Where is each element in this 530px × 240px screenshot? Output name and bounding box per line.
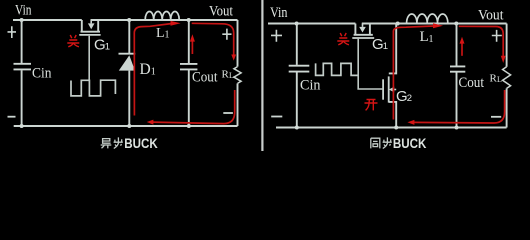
wire Cout lower lead right: [456, 72, 458, 127]
label bu (step) character: [114, 137, 123, 148]
capacitor Cin: [14, 64, 32, 70]
transistor G1 right arrow: [362, 24, 364, 27]
capacitor Cout: [180, 64, 197, 70]
plus output terminal: [222, 29, 231, 40]
red current line below RL curving left along bottom right panel: [414, 90, 505, 123]
red arrowhead pointing left on bottom return: [147, 120, 154, 125]
label tong (sync) character: [371, 138, 380, 148]
transistor G1 right channel bar: [354, 34, 373, 36]
transistor G1 arrow: [90, 20, 92, 23]
svg-text:1: 1: [165, 30, 170, 41]
wire left vertical upper: [21, 20, 23, 63]
inductor L1 right: [407, 14, 448, 23]
inductor L1: [145, 12, 179, 20]
wire top-left horizontal: [13, 19, 82, 21]
wire bottom right panel: [276, 127, 507, 129]
wire right edge lower: [237, 83, 239, 126]
svg-text:1: 1: [105, 42, 110, 53]
transistor G2 gate bar: [382, 79, 384, 99]
wire Cout upper lead: [188, 20, 190, 63]
wire Cin vertical lower right: [296, 72, 298, 127]
node Cout junction top: [187, 18, 191, 22]
label bu (step) character right: [383, 137, 392, 148]
node switch node junction: [396, 22, 400, 26]
transistor G2 arrow: [394, 89, 396, 91]
label off (guan) red character right: [337, 33, 349, 45]
wire top-left horizontal right panel: [268, 23, 355, 25]
node input junction right: [295, 22, 299, 26]
capacitor Cout right: [450, 66, 465, 71]
wire Cout lower lead: [188, 70, 190, 126]
svg-text:2: 2: [407, 93, 412, 104]
minus input terminal right: [271, 116, 282, 118]
wire diode anode lead: [128, 71, 130, 126]
svg-text:L: L: [156, 26, 165, 41]
red current line to corner and down right panel: [459, 26, 503, 56]
wire left vertical lower: [21, 70, 23, 126]
transistor G2 channel bar: [388, 76, 390, 102]
label yi (async) character: [101, 139, 112, 149]
node bottom Cout junction: [187, 124, 191, 128]
svg-text:L: L: [420, 29, 429, 45]
diode D1: [119, 53, 136, 55]
red arrowhead pointing left on bottom return right: [407, 120, 414, 125]
resistor RL right: [503, 67, 511, 89]
transistor G1 channel bar: [81, 31, 101, 33]
node bottom diode junction: [127, 124, 131, 128]
svg-text:Vin: Vin: [270, 5, 288, 21]
panel divider line: [261, 0, 263, 151]
svg-text:Vout: Vout: [478, 8, 504, 24]
wire right edge upper: [237, 20, 239, 67]
wire bottom: [14, 125, 238, 127]
node Cout junction right: [454, 22, 458, 26]
svg-text:1: 1: [383, 41, 388, 52]
red capacitor current arrow up: [191, 41, 193, 54]
svg-text:BUCK: BUCK: [124, 135, 157, 151]
node bottom Cout junction right: [455, 126, 459, 130]
transistor G1 right gate bar: [352, 37, 374, 39]
svg-text:1: 1: [151, 66, 156, 77]
wire right edge upper right panel: [506, 24, 508, 67]
wire switch node vertical to G2 drain: [389, 24, 396, 74]
svg-text:1: 1: [429, 34, 434, 45]
minus output terminal: [223, 112, 233, 114]
wire diode cathode lead: [128, 20, 130, 53]
red current line to output corner and down: [192, 23, 234, 55]
red current loop rising through diode and to the right: [134, 24, 171, 116]
red arrowhead under inductor right pointing right: [433, 23, 443, 28]
wire Cout upper lead right: [456, 24, 458, 66]
node bottom left junction: [20, 124, 24, 128]
plus output terminal right: [492, 30, 502, 42]
label on (kai) red character: [365, 100, 378, 111]
svg-text:Cin: Cin: [300, 78, 321, 94]
plus input terminal: [8, 26, 17, 38]
red arrowhead under inductor pointing right: [171, 21, 181, 26]
capacitor Cin right: [289, 66, 310, 72]
svg-text:L: L: [497, 75, 502, 84]
label off (guan) red character: [67, 35, 79, 47]
transistor G1 drain lead: [97, 20, 99, 31]
PWM square wave source right: [316, 63, 359, 75]
wire top middle horizontal: [91, 19, 238, 21]
minus input terminal: [8, 116, 16, 118]
wire G1 gate lead down: [88, 36, 90, 81]
PWM square wave source: [71, 80, 115, 96]
svg-text:D: D: [140, 61, 151, 78]
svg-text:BUCK: BUCK: [393, 135, 427, 151]
transistor G2 source lead: [389, 102, 396, 128]
transistor G1 source lead: [81, 20, 83, 31]
wire top middle horizontal right: [362, 23, 507, 25]
node input junction: [20, 18, 24, 22]
wire right edge lower right panel: [506, 88, 508, 127]
red arrowhead pointing down at RL right: [501, 56, 506, 63]
transistor G1 right source lead: [354, 24, 356, 35]
red capacitor current arrow up right: [461, 43, 463, 56]
node bottom Cin junction right: [295, 126, 299, 130]
red current line below RL curving left along bottom: [153, 90, 235, 124]
svg-text:Vout: Vout: [209, 4, 234, 20]
svg-text:Cin: Cin: [32, 66, 52, 82]
svg-text:Cout: Cout: [192, 70, 218, 86]
resistor RL: [234, 67, 241, 84]
node bottom G2 junction: [394, 126, 398, 130]
svg-text:L: L: [229, 71, 234, 80]
node diode junction top: [127, 18, 131, 22]
svg-text:Vin: Vin: [15, 3, 32, 19]
transistor G1 right drain lead: [369, 24, 371, 35]
red current loop up through G2: [393, 26, 433, 120]
plus input terminal right: [271, 30, 282, 42]
wire shared gate line down to PWM and G2: [358, 39, 382, 89]
transistor G1 gate bar: [79, 34, 100, 36]
minus output terminal right: [491, 116, 501, 118]
svg-text:Cout: Cout: [459, 75, 485, 91]
red arrowhead pointing down at RL: [231, 55, 236, 61]
wire Cin vertical upper right: [296, 24, 298, 65]
